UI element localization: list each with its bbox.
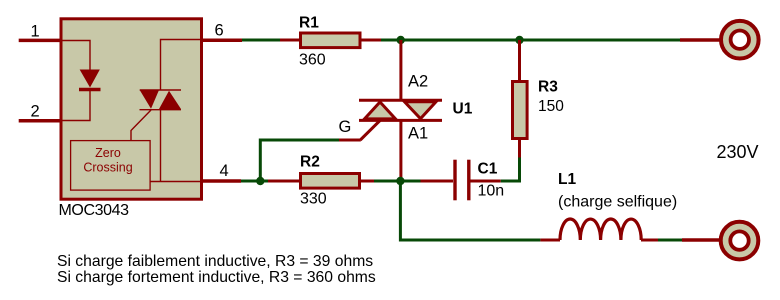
bottom pad inner ring bbox=[730, 231, 748, 249]
triac U1 left triangle bbox=[365, 102, 396, 119]
pin 6 wire bbox=[202, 38, 242, 42]
junction node pin4/R2 bbox=[256, 177, 264, 185]
svg-text:Crossing: Crossing bbox=[83, 161, 132, 175]
L1 left pin stub bbox=[540, 239, 560, 242]
svg-text:Si charge faiblement inductive: Si charge faiblement inductive, R3 = 39 … bbox=[57, 253, 373, 270]
svg-text:10n: 10n bbox=[478, 183, 505, 200]
net: gate wire from junction to G bbox=[260, 140, 339, 181]
inner triac top bar bbox=[140, 89, 181, 91]
pin 4 wire bbox=[202, 179, 241, 183]
svg-text:6: 6 bbox=[215, 22, 224, 40]
svg-text:4: 4 bbox=[220, 162, 229, 180]
pin wire to bottom pad bbox=[682, 238, 720, 242]
R1 right pin stub bbox=[362, 39, 382, 42]
inner triac left triangle bbox=[140, 90, 159, 109]
svg-text:C1: C1 bbox=[478, 161, 498, 178]
photo-triac inside optocoupler: wire from pin 6 bbox=[161, 40, 202, 91]
top pad inner ring bbox=[731, 31, 749, 49]
net: R2 to C1 junction bbox=[374, 180, 421, 183]
svg-text:U1: U1 bbox=[453, 100, 473, 117]
net: bottom rail from junction bbox=[400, 181, 540, 240]
svg-text:A2: A2 bbox=[408, 73, 428, 91]
L1 right pin stub bbox=[641, 239, 658, 242]
triac U1 vertical wire A2 bbox=[399, 40, 402, 100]
R3 top pin stub bbox=[518, 40, 521, 81]
svg-text:(charge selfique): (charge selfique) bbox=[558, 193, 677, 210]
triac gate diagonal bbox=[360, 121, 380, 141]
pin 1 wire bbox=[19, 39, 60, 43]
triac U1 bottom bar bbox=[359, 119, 442, 122]
R2 right pin stub bbox=[361, 180, 374, 183]
wire to pin 4 bbox=[151, 181, 202, 183]
resistor R3 body bbox=[513, 82, 528, 139]
pin wire to top pad bbox=[680, 38, 720, 42]
resistor R1 body bbox=[301, 33, 361, 48]
triac U1 vertical wire A1 bbox=[399, 120, 402, 181]
LED cathode bar bbox=[79, 88, 101, 92]
bottom pad ring bbox=[721, 222, 759, 260]
capacitor C1 left plate bbox=[453, 160, 456, 201]
net: R1 to top pad bbox=[381, 39, 680, 42]
top pad ring bbox=[721, 21, 759, 59]
inner triac bottom bar bbox=[140, 109, 182, 111]
gate pin stub maroon bbox=[339, 139, 361, 142]
svg-text:2: 2 bbox=[31, 103, 40, 121]
LED triangle bbox=[81, 70, 100, 87]
net: pin4 to junction to R2 bbox=[241, 180, 268, 183]
svg-text:360: 360 bbox=[299, 51, 326, 68]
svg-text:R2: R2 bbox=[300, 153, 320, 170]
net: C1 to R3 bottom bbox=[501, 158, 520, 182]
svg-text:G: G bbox=[339, 118, 352, 136]
svg-text:MOC3043: MOC3043 bbox=[59, 202, 130, 219]
LED D inside optocoupler: anode wire bbox=[60, 41, 90, 71]
C1 right pin stub bbox=[471, 180, 501, 183]
svg-text:R3: R3 bbox=[538, 79, 558, 96]
inner triac gate wire to zero-crossing block bbox=[131, 110, 151, 140]
resistor R2 body bbox=[301, 174, 360, 189]
junction node A1/C1 bbox=[396, 177, 404, 185]
net: pin6 to R1 bbox=[242, 39, 281, 42]
svg-text:330: 330 bbox=[300, 190, 327, 207]
triac U1 right triangle bbox=[405, 102, 437, 119]
optocoupler U MOC3043 body bbox=[61, 19, 202, 199]
svg-text:Si charge fortement inductive,: Si charge fortement inductive, R3 = 360 … bbox=[57, 269, 376, 286]
svg-text:1: 1 bbox=[31, 23, 40, 41]
LED cathode wire bbox=[61, 91, 90, 121]
svg-text:A1: A1 bbox=[408, 124, 428, 142]
photo-triac wire to pin 4 side bbox=[160, 110, 162, 182]
svg-text:R1: R1 bbox=[299, 15, 319, 32]
svg-text:Zero: Zero bbox=[95, 146, 121, 160]
svg-text:L1: L1 bbox=[558, 171, 576, 188]
C1 left pin stub bbox=[421, 180, 454, 183]
R3 bottom pin stub bbox=[518, 139, 521, 158]
triac U1 top bar bbox=[359, 99, 442, 102]
inner triac right triangle bbox=[159, 91, 181, 109]
pin 2 wire bbox=[19, 119, 60, 123]
R1 left pin stub bbox=[280, 39, 300, 42]
zero crossing block bbox=[71, 141, 151, 191]
R2 left pin stub bbox=[268, 180, 300, 183]
net: L1 to bottom pad bbox=[658, 239, 682, 242]
junction node at triac A2 bbox=[397, 36, 405, 44]
capacitor C1 right plate bbox=[467, 160, 470, 201]
inductor L1 coil bbox=[560, 219, 641, 240]
svg-text:230V: 230V bbox=[717, 142, 759, 162]
junction node at R3 top bbox=[515, 36, 523, 44]
svg-text:150: 150 bbox=[538, 98, 564, 115]
